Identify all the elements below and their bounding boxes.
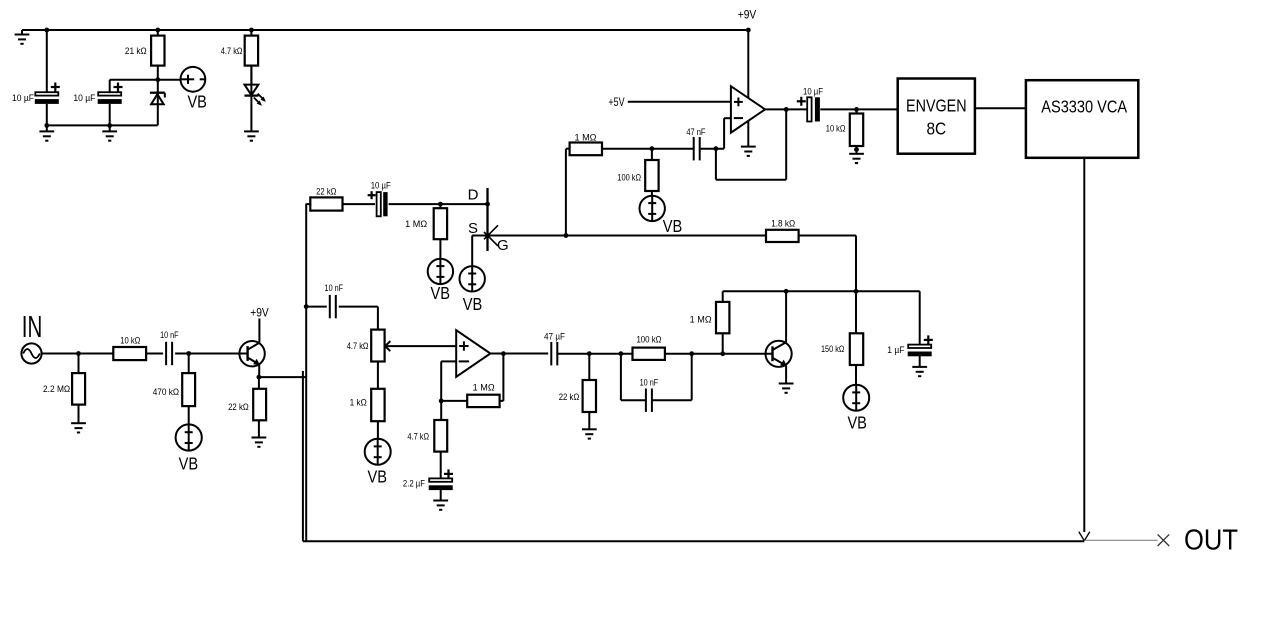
svg-text:100 kΩ: 100 kΩ [636, 335, 661, 345]
wire (C2 top link) [110, 80, 158, 93]
resistor R4 1MΩ (fb) [570, 132, 652, 155]
capacitor C1 10µF [12, 83, 60, 104]
wire (ENVGEN to VCA) [975, 107, 1028, 109]
wire (C9 to Q1) [175, 353, 248, 355]
svg-text:1 MΩ: 1 MΩ [405, 219, 427, 229]
svg-text:+9V: +9V [250, 307, 269, 319]
node (150k tap) [854, 289, 859, 294]
svg-text:VB: VB [179, 454, 199, 474]
svg-text:4.7 kΩ: 4.7 kΩ [407, 432, 429, 442]
resistor R5 10kΩ [826, 109, 863, 153]
resistor R9 1MΩ [690, 291, 730, 353]
wire (U2 out) [490, 353, 548, 355]
JFET J1 [468, 187, 509, 254]
svg-text:VB: VB [463, 294, 483, 314]
svg-text:VB: VB [368, 466, 388, 486]
capacitor C2 10µF [73, 83, 122, 104]
svg-text:ENVGEN: ENVGEN [906, 96, 967, 116]
svg-text:150 kΩ: 150 kΩ [821, 344, 845, 354]
node (U1 output) [784, 107, 789, 112]
wire (Q2 base) [723, 353, 773, 355]
ground (R13) [252, 438, 267, 447]
svg-text:2.2 µF: 2.2 µF [403, 479, 426, 489]
wire (thin to OUT pin) [1084, 539, 1157, 541]
wire (+5V to U1+) [628, 101, 731, 103]
capacitor C13 10nF (parallel) [621, 354, 692, 412]
node (R12 top) [186, 351, 191, 356]
wire (U1 out) [765, 108, 807, 110]
wire (to VB1) [158, 79, 181, 81]
wire (C7 to D) [389, 203, 488, 205]
svg-text:S: S [468, 220, 478, 237]
capacitor C10 10nF [306, 283, 378, 318]
capacitor C7 10µF [368, 180, 392, 216]
wire (U1- input) [724, 118, 731, 149]
node (R3 top) [650, 146, 655, 151]
ground (C11) [433, 501, 448, 510]
voltage source VB7 [843, 385, 869, 433]
node (zener top) [155, 77, 160, 82]
node (C1 bottom) [44, 123, 49, 128]
resistor R20 150kΩ [821, 291, 863, 385]
op-amp U1 [731, 86, 765, 133]
voltage source VB6 [176, 424, 202, 473]
ground (Q2) [779, 384, 794, 393]
wire feedback loop [716, 109, 786, 179]
voltage source VB5 [365, 439, 391, 487]
resistor R18 22kΩ [559, 354, 596, 430]
wire +9V top rail [22, 29, 748, 31]
resistor R19 100kΩ [633, 335, 723, 360]
node (+9V) [746, 28, 751, 33]
svg-text:10 µF: 10 µF [371, 180, 391, 190]
node (C1 tap on rail) [44, 28, 49, 33]
svg-text:1 MΩ: 1 MΩ [575, 132, 597, 142]
node (par cap left) [619, 351, 624, 356]
svg-text:10 kΩ: 10 kΩ [826, 123, 846, 133]
wire [109, 104, 111, 126]
node (par cap right) [689, 351, 694, 356]
svg-text:1 MΩ: 1 MΩ [473, 382, 495, 392]
IC ENVGEN 8C [898, 79, 975, 154]
resistor R13 22kΩ [228, 377, 266, 437]
capacitor C9 10nF [160, 330, 179, 365]
wire [46, 104, 48, 126]
ground (R18) [582, 429, 597, 438]
resistor R12 470kΩ [153, 354, 195, 425]
wire (S lead) [472, 236, 487, 267]
op-amp U2 [456, 330, 490, 377]
wire (net B vertical) [302, 371, 304, 541]
label OUT [1184, 524, 1238, 556]
svg-text:10 nF: 10 nF [640, 378, 659, 388]
node (10nF tap on net A) [304, 304, 309, 309]
voltage source VB3 [428, 259, 453, 303]
svg-text:10 µF: 10 µF [73, 93, 95, 103]
resistor R6 22kΩ [306, 187, 375, 211]
svg-text:1.8 kΩ: 1.8 kΩ [771, 219, 795, 229]
label +5V [608, 97, 624, 109]
wire (emitter row) [259, 376, 307, 378]
node (U2 out) [501, 351, 506, 356]
node (Q2 base tap) [720, 351, 725, 356]
node (R10 top) [76, 351, 81, 356]
wire (V+ into U1) [747, 30, 749, 102]
potentiometer R14 4.7kΩ [347, 330, 456, 362]
transistor Q1 [239, 319, 264, 378]
svg-text:47 µF: 47 µF [544, 331, 565, 341]
resistor R8 1.8kΩ [766, 219, 856, 292]
svg-text:OUT: OUT [1184, 524, 1238, 556]
svg-text:10 nF: 10 nF [325, 283, 344, 293]
svg-text:VB: VB [187, 92, 207, 112]
label +9V (Q1) [250, 307, 269, 319]
node (R18 top) [587, 351, 592, 356]
ground (top-left rail) [15, 30, 30, 44]
wire [557, 353, 632, 355]
capacitor C12 47µF [544, 331, 565, 365]
svg-text:100 kΩ: 100 kΩ [617, 173, 641, 183]
svg-text:+9V: +9V [738, 9, 757, 21]
resistor R11 10kΩ [79, 335, 164, 360]
node (R7 top) [438, 202, 443, 207]
node (R1 top) [155, 28, 160, 33]
wire (U2- loop) [441, 361, 456, 401]
wire (VCA output drop) [1083, 158, 1085, 532]
svg-text:21 kΩ: 21 kΩ [125, 46, 147, 56]
resistor R16 1MΩ (fb) [441, 354, 503, 407]
node (R5 top) [854, 107, 859, 112]
node (Q2 collector tap) [784, 289, 789, 294]
svg-text:+5V: +5V [608, 97, 624, 109]
svg-text:D: D [468, 187, 479, 204]
node (C2 bottom) [107, 123, 112, 128]
capacitor C8 1µF [887, 291, 933, 367]
svg-text:8C: 8C [926, 118, 946, 138]
resistor R3 100kΩ [617, 149, 658, 196]
svg-text:10 µF: 10 µF [12, 93, 34, 103]
svg-text:10 kΩ: 10 kΩ [120, 335, 140, 345]
node (fb drop joins G) [564, 233, 569, 238]
wire (mid rail) [723, 290, 920, 292]
capacitor C5 47nF [686, 127, 706, 160]
voltage source VB4 [460, 266, 485, 314]
ground (U1) [741, 147, 756, 156]
ground (R10) [71, 423, 86, 432]
svg-text:10 nF: 10 nF [160, 330, 179, 340]
svg-text:10 µF: 10 µF [803, 86, 823, 96]
svg-text:22 kΩ: 22 kΩ [316, 187, 337, 197]
IC AS3330 VCA [1026, 80, 1138, 158]
svg-text:2.2 MΩ: 2.2 MΩ [43, 384, 70, 394]
ground (R5) [849, 154, 864, 163]
wire (to pot) [377, 307, 379, 330]
capacitor C11 2.2µF [403, 469, 453, 500]
svg-text:VB: VB [847, 412, 867, 432]
svg-text:G: G [497, 237, 509, 254]
node (U2 fb) [439, 399, 444, 404]
voltage source VB2 [640, 196, 683, 236]
svg-text:22 kΩ: 22 kΩ [559, 392, 580, 402]
svg-text:VB: VB [663, 216, 683, 236]
resistor R2 4.7kΩ [221, 30, 258, 85]
label IN [22, 309, 43, 344]
wire OUT bus [303, 540, 1084, 542]
svg-text:VB: VB [431, 283, 451, 303]
wire (G row) [488, 235, 767, 237]
svg-text:47 nF: 47 nF [686, 127, 706, 137]
transistor Q2 [766, 291, 792, 383]
wire bottom bus [47, 124, 158, 126]
LED D2 [245, 66, 266, 132]
wire (47nF row right) [701, 148, 725, 150]
wire (U1 gnd pin) [747, 118, 749, 146]
ground (C1) [39, 125, 54, 140]
zener diode D1 [150, 80, 165, 126]
OUT pin x-mark [1158, 534, 1170, 546]
resistor R17 4.7kΩ [407, 401, 447, 479]
resistor R1 21kΩ [125, 30, 165, 80]
node (R5 bottom) [854, 147, 859, 152]
ground (C8) [912, 367, 927, 376]
AC source IN [21, 343, 78, 363]
wire [46, 30, 48, 92]
svg-text:22 kΩ: 22 kΩ [228, 402, 249, 412]
resistor R7 1MΩ [405, 204, 447, 259]
arrowhead (VCA out) [1079, 532, 1090, 541]
svg-text:4.7 kΩ: 4.7 kΩ [347, 341, 369, 351]
svg-text:1 µF: 1 µF [887, 345, 905, 355]
resistor R10 2.2MΩ [43, 354, 85, 424]
svg-text:AS3330 VCA: AS3330 VCA [1041, 97, 1127, 117]
svg-text:IN: IN [22, 309, 43, 344]
resistor R15 1kΩ [350, 362, 385, 439]
svg-text:1 kΩ: 1 kΩ [350, 398, 367, 408]
wire (net A vertical) [305, 204, 307, 542]
ground (C2) [102, 125, 117, 140]
svg-text:1 MΩ: 1 MΩ [690, 314, 712, 324]
voltage source VB1 [181, 67, 207, 112]
ground (LED) [244, 131, 259, 140]
node (R2 top) [249, 28, 254, 33]
wire (47nF row left) [652, 148, 694, 150]
node (fb tap) [714, 146, 719, 151]
wire (fb left drop) [566, 149, 570, 236]
capacitor C6 10µF (out) [797, 86, 824, 121]
svg-text:4.7 kΩ: 4.7 kΩ [221, 46, 243, 56]
label +9V (rail) [738, 9, 757, 21]
wire (to ENVGEN) [820, 108, 897, 110]
svg-text:470 kΩ: 470 kΩ [153, 387, 180, 397]
node (Q1 emitter) [257, 375, 262, 380]
